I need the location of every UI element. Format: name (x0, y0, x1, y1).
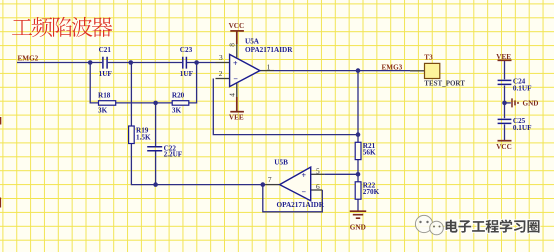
svg-text:+: + (302, 171, 307, 180)
svg-text:3K: 3K (172, 106, 182, 114)
svg-text:VCC: VCC (496, 143, 512, 151)
svg-text:7: 7 (268, 175, 272, 184)
svg-text:R20: R20 (172, 92, 185, 100)
svg-text:−: − (233, 75, 238, 84)
svg-text:0.1UF: 0.1UF (513, 84, 532, 92)
svg-text:VEE: VEE (496, 53, 511, 61)
svg-text:1: 1 (267, 62, 271, 71)
svg-text:U5B: U5B (274, 159, 288, 167)
svg-text:0.1UF: 0.1UF (513, 124, 532, 132)
svg-text:5: 5 (316, 166, 320, 175)
svg-text:EMG3: EMG3 (382, 64, 403, 72)
svg-text:8: 8 (228, 43, 237, 47)
svg-text:OPA2171AIDR: OPA2171AIDR (277, 201, 325, 209)
svg-text:TEST_PORT: TEST_PORT (424, 80, 465, 88)
svg-text:+: + (233, 59, 238, 68)
svg-text:270K: 270K (363, 188, 380, 196)
svg-text:3K: 3K (98, 106, 108, 114)
svg-text:1UF: 1UF (180, 70, 194, 78)
svg-text:U5A: U5A (245, 38, 260, 46)
svg-text:R18: R18 (98, 92, 111, 100)
svg-text:GND: GND (523, 100, 539, 108)
svg-text:EMG2: EMG2 (18, 55, 39, 63)
svg-text:4: 4 (228, 93, 237, 97)
svg-text:C23: C23 (180, 46, 193, 54)
svg-text:T3: T3 (424, 54, 433, 62)
svg-text:3: 3 (219, 53, 223, 62)
svg-text:VEE: VEE (229, 113, 244, 121)
svg-text:1UF: 1UF (99, 70, 113, 78)
svg-text:VCC: VCC (229, 22, 245, 30)
svg-text:56K: 56K (363, 149, 376, 157)
svg-text:C21: C21 (99, 46, 112, 54)
svg-text:6: 6 (316, 182, 320, 191)
svg-text:OPA2171AIDR: OPA2171AIDR (245, 46, 293, 54)
svg-text:GND: GND (350, 223, 366, 231)
svg-text:2: 2 (219, 69, 223, 78)
svg-text:2.2UF: 2.2UF (164, 151, 183, 159)
svg-text:−: − (302, 188, 307, 197)
svg-text:1.5K: 1.5K (136, 133, 151, 141)
